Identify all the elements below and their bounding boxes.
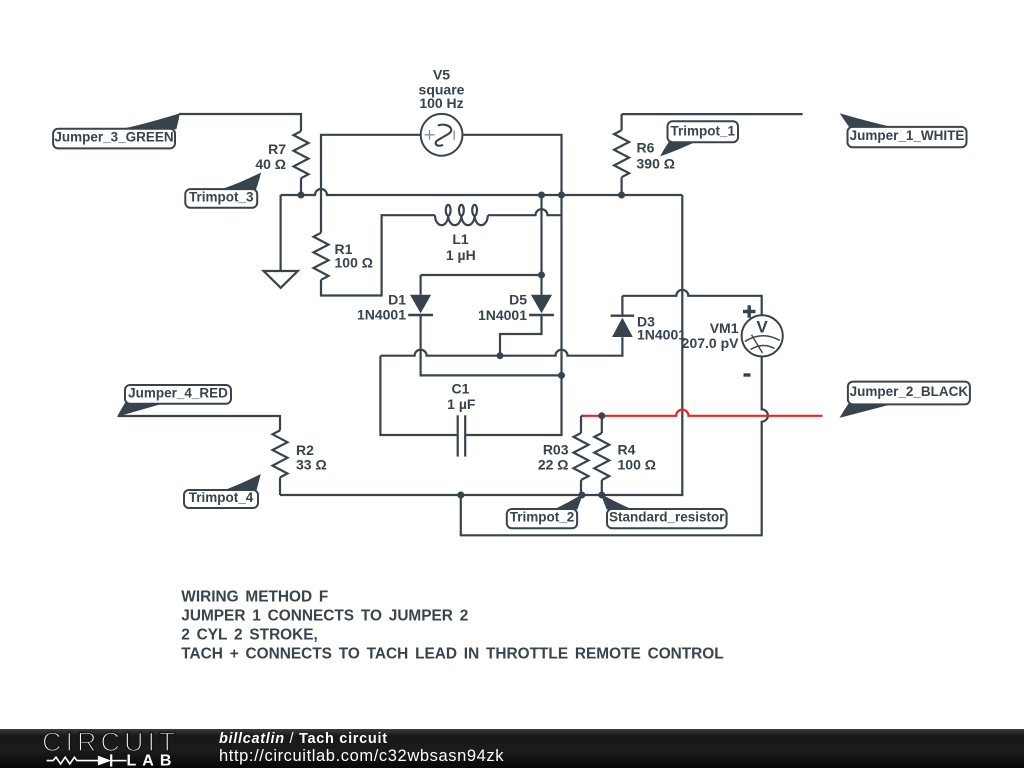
wire ground drop bbox=[280, 195, 282, 271]
circuitlab logo resistor diode doodle bbox=[47, 754, 127, 766]
flag Jumper_1_WHITE bbox=[841, 114, 967, 147]
svg-text:1N4001: 1N4001 bbox=[357, 307, 406, 323]
wire R03 top lead bbox=[580, 416, 582, 433]
svg-text:Jumper_3_GREEN: Jumper_3_GREEN bbox=[54, 130, 173, 145]
svg-text:2 CYL 2 STROKE,: 2 CYL 2 STROKE, bbox=[181, 627, 318, 644]
svg-text:Trimpot_1: Trimpot_1 bbox=[670, 123, 735, 138]
svg-text:Trimpot_3: Trimpot_3 bbox=[189, 190, 254, 205]
svg-text:100 Ω: 100 Ω bbox=[618, 457, 656, 473]
voltage source V5 bbox=[421, 114, 463, 156]
node D1 D5 link bbox=[538, 272, 545, 279]
svg-text:40 Ω: 40 Ω bbox=[255, 156, 286, 172]
svg-text:Standard_resistor: Standard_resistor bbox=[609, 510, 725, 525]
svg-text:100 Ω: 100 Ω bbox=[335, 254, 373, 270]
svg-text:Trimpot_4: Trimpot_4 bbox=[189, 490, 254, 505]
flag Trimpot_2 bbox=[507, 495, 582, 528]
svg-text:1 µF: 1 µF bbox=[447, 396, 476, 412]
wire line A D3 anode rail with hops bbox=[380, 337, 622, 356]
resistor R7 bbox=[294, 131, 309, 178]
wire R7 bottom lead bbox=[300, 178, 302, 195]
resistor R4 bbox=[594, 433, 609, 480]
node R4 bottom bbox=[598, 492, 605, 499]
flag Jumper_2_BLACK bbox=[841, 382, 970, 418]
voltmeter VM1 bbox=[742, 305, 783, 375]
wire R03 bottom lead bbox=[580, 480, 582, 495]
svg-text:Trimpot_2: Trimpot_2 bbox=[510, 510, 575, 525]
wire R6 bottom lead bbox=[620, 177, 622, 195]
wire V5 left to R1 bbox=[321, 135, 421, 233]
diode D3 bbox=[611, 296, 635, 337]
capacitor C1 bbox=[458, 415, 466, 456]
wire right loop x682 and bottom rail bbox=[280, 195, 682, 495]
node R03 bottom bbox=[578, 492, 585, 499]
svg-text:TACH + CONNECTS TO TACH LEAD I: TACH + CONNECTS TO TACH LEAD IN THROTTLE… bbox=[181, 646, 723, 663]
svg-text:D5: D5 bbox=[509, 292, 527, 308]
wire R6 to Jumper_1 bbox=[622, 113, 803, 115]
svg-text:C1: C1 bbox=[452, 381, 470, 397]
node V5 right on rail bbox=[558, 192, 565, 199]
note wiring method text bbox=[181, 589, 723, 663]
svg-text:R03: R03 bbox=[543, 442, 569, 458]
wire Jumper_3 to R7 top bbox=[179, 114, 301, 131]
wire R6 top lead bbox=[620, 114, 622, 130]
diode D1 bbox=[408, 295, 433, 315]
node R6 bottom on rail bbox=[618, 192, 625, 199]
wire D5 cathode jog bbox=[500, 316, 542, 356]
flag Trimpot_3 bbox=[185, 173, 260, 207]
wire L1 right with hop over D5 branch bbox=[488, 209, 562, 215]
wire R4 bottom lead bbox=[601, 480, 603, 495]
svg-text:D1: D1 bbox=[388, 291, 406, 307]
svg-text:LAB: LAB bbox=[127, 752, 178, 768]
svg-text:VM1: VM1 bbox=[710, 320, 739, 336]
wire VM1 minus loop to bottom node bbox=[461, 357, 768, 536]
svg-text:207.0 pV: 207.0 pV bbox=[682, 335, 739, 351]
wire D1 top lead bbox=[420, 275, 422, 295]
svg-text:1 µH: 1 µH bbox=[446, 247, 476, 263]
wire ground rail with hop over R1 branch bbox=[281, 189, 683, 195]
svg-text:WIRING METHOD F: WIRING METHOD F bbox=[181, 589, 328, 606]
footer author line bbox=[219, 731, 388, 747]
flag Standard_resistor bbox=[602, 495, 727, 528]
svg-text:JUMPER 1 CONNECTS TO JUMPER 2: JUMPER 1 CONNECTS TO JUMPER 2 bbox=[181, 608, 468, 625]
wire D3 cathode to VM1 plus with hop bbox=[622, 290, 761, 316]
svg-text:L1: L1 bbox=[452, 231, 469, 247]
ground bbox=[264, 271, 298, 288]
node D5 branch on rail bbox=[538, 192, 545, 199]
wire R2 bottom lead bbox=[279, 477, 281, 495]
wire D1 cathode to line B bbox=[421, 316, 562, 375]
svg-text:Jumper_2_BLACK: Jumper_2_BLACK bbox=[850, 384, 969, 399]
node R7 bottom bbox=[298, 192, 305, 199]
wire R2 branch from Jumper_4 bbox=[118, 416, 280, 430]
diode D5 bbox=[529, 295, 554, 315]
svg-text:1N4001: 1N4001 bbox=[478, 307, 527, 323]
resistor R2 bbox=[273, 430, 288, 477]
svg-text:100 Hz: 100 Hz bbox=[419, 95, 463, 111]
svg-text:1N4001: 1N4001 bbox=[637, 327, 686, 343]
node D5 on line A bbox=[497, 352, 504, 359]
svg-text:33 Ω: 33 Ω bbox=[296, 457, 327, 473]
footer url line bbox=[219, 747, 504, 766]
flag Trimpot_4 bbox=[184, 475, 260, 508]
wire red highlighted net bbox=[581, 415, 585, 417]
resistor R03 bbox=[574, 433, 589, 480]
flag Jumper_3_GREEN bbox=[53, 114, 179, 148]
resistor R6 bbox=[614, 130, 629, 177]
wire D5 branch vertical bbox=[540, 195, 542, 295]
flag Jumper_4_RED bbox=[118, 385, 231, 416]
inductor L1 bbox=[435, 205, 488, 225]
wire C1 left branch bbox=[380, 356, 456, 435]
svg-text:V5: V5 bbox=[433, 67, 450, 83]
svg-text:22 Ω: 22 Ω bbox=[538, 457, 569, 473]
node line B to C1 branch bbox=[558, 372, 565, 379]
resistor R1 bbox=[314, 233, 329, 280]
svg-text:R6: R6 bbox=[637, 140, 655, 156]
svg-text:Jumper_1_WHITE: Jumper_1_WHITE bbox=[850, 128, 965, 143]
wire R4 top lead bbox=[601, 416, 603, 433]
node red wire R4 top bbox=[598, 412, 605, 419]
svg-text:Jumper_4_RED: Jumper_4_RED bbox=[128, 385, 228, 400]
svg-text:R4: R4 bbox=[618, 442, 636, 458]
wire R1 bottom to L1 left bbox=[321, 215, 435, 295]
svg-text:R7: R7 bbox=[268, 141, 286, 157]
wire C1 right branch bbox=[466, 375, 561, 435]
svg-text:V: V bbox=[756, 318, 768, 337]
svg-text:390 Ω: 390 Ω bbox=[637, 156, 675, 172]
wire D1 D5 top link bbox=[421, 274, 542, 276]
flag Trimpot_1 bbox=[661, 121, 738, 155]
wire V5 right down to C1 branch bbox=[463, 135, 562, 376]
node VM1 return on bottom rail bbox=[457, 492, 464, 499]
